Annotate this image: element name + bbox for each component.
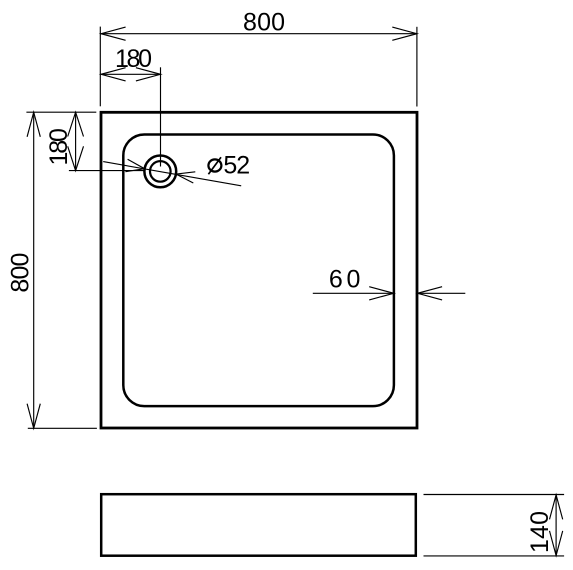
dim 800 left: dimension line bbox=[33, 112, 35, 428]
drain outer circle bbox=[144, 156, 176, 188]
tray side view rectangle bbox=[101, 494, 416, 556]
dim 180 top: left arrowhead bbox=[101, 68, 126, 81]
dim 800 left: top arrowhead bbox=[27, 112, 40, 137]
dim o52: left arrowhead bbox=[125, 159, 144, 172]
dim 180 left: top arrowhead bbox=[68, 112, 84, 136]
dim 800 top: right arrowhead bbox=[392, 27, 417, 40]
dim 60: arrowhead at inner edge bbox=[369, 287, 394, 300]
dim o52: label bbox=[208, 152, 250, 180]
svg-text:180: 180 bbox=[115, 45, 152, 73]
svg-text:800: 800 bbox=[7, 253, 35, 293]
dim 180 top: extension line down to drain centre bbox=[160, 67, 162, 166]
dim 140: extension line top bbox=[424, 494, 565, 496]
dim 140: dimension line bbox=[555, 495, 557, 556]
dim 60: left leader line bbox=[313, 292, 394, 294]
dim 800 top: dimension line bbox=[101, 33, 417, 35]
dim 800 top: extension line right bbox=[416, 27, 418, 107]
dim o52: right arrowhead bbox=[176, 172, 195, 183]
dim 60: arrowhead at outer edge bbox=[418, 287, 443, 300]
dim 140: extension line bottom bbox=[424, 555, 565, 557]
dim 800 top: left arrowhead bbox=[101, 27, 126, 40]
svg-text:140: 140 bbox=[526, 511, 554, 553]
dim 800 left: extension line bottom bbox=[28, 427, 97, 429]
dim 180 left: bottom arrowhead bbox=[68, 146, 84, 170]
svg-text:800: 800 bbox=[243, 9, 285, 37]
drain inner circle bbox=[150, 161, 171, 182]
dim o52: leader line through drain bbox=[103, 162, 241, 186]
dim 60: right leader line bbox=[418, 292, 466, 294]
dim 800 top: extension line left bbox=[99, 27, 101, 107]
dim 180 left: extension line to drain centre bbox=[69, 170, 145, 172]
svg-text:52: 52 bbox=[223, 152, 250, 180]
tray inner rim (rounded square) bbox=[123, 135, 394, 407]
dim 800 left: extension line top bbox=[26, 111, 96, 113]
dim 180 left: dimension line bbox=[75, 112, 77, 170]
dim 180 top: right arrowhead bbox=[136, 68, 161, 81]
svg-text:180: 180 bbox=[45, 128, 73, 166]
tray outer square (plan view) bbox=[101, 112, 417, 428]
dim 140: bottom arrowhead bbox=[550, 531, 563, 556]
dim 800 left: bottom arrowhead bbox=[27, 404, 40, 429]
dim 140: top arrowhead bbox=[550, 495, 563, 520]
dim 180 top: dimension line bbox=[101, 73, 161, 75]
